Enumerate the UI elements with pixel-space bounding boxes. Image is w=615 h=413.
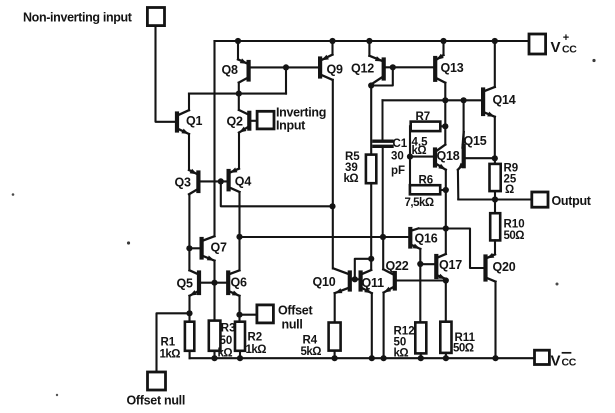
resistor R1 <box>160 322 195 361</box>
svg-text:Q10: Q10 <box>313 275 336 289</box>
wire Q15 collector up <box>463 100 465 146</box>
wire R7 right lead <box>440 125 445 127</box>
terminal offset null (Q5 side) <box>127 372 186 408</box>
wire Q18 base <box>410 156 433 158</box>
node Q20 collector rail <box>492 355 498 361</box>
wire Q8 base-collector tie <box>285 67 287 93</box>
wire Q11 collector to R5 <box>370 183 372 270</box>
transistor Q2 <box>227 110 250 133</box>
node Q18 base junction <box>407 154 413 160</box>
svg-text:kΩ: kΩ <box>412 145 427 157</box>
svg-text:Q8: Q8 <box>222 63 239 77</box>
node Q12 base tie <box>390 64 396 70</box>
wire Q6 emitter to R2 <box>238 296 240 322</box>
transistor Q22 <box>383 259 408 293</box>
wire Q5-Q6 base line <box>201 282 227 284</box>
transistor Q13 <box>435 54 464 83</box>
wire Q1 emitter to Q3 emitter <box>188 134 190 170</box>
terminal Vcc- <box>535 350 577 369</box>
node Q11 emitter rail <box>369 355 375 361</box>
resistor R10 <box>490 213 524 242</box>
wire Q13 emitter to rail <box>442 41 444 55</box>
wire Q18 emitter down <box>445 170 447 229</box>
svg-text:1kΩ: 1kΩ <box>160 349 181 361</box>
svg-text:5kΩ: 5kΩ <box>301 346 322 358</box>
wire Q5 emitter node to offset null terminal <box>157 313 190 372</box>
wire Q15 emitter to output <box>458 170 532 200</box>
wire Q7 emitter to R3 <box>213 261 215 321</box>
transistor Q14 <box>483 87 516 117</box>
node Q12 emitter rail <box>366 38 372 44</box>
svg-text:Non-inverting input: Non-inverting input <box>23 11 133 25</box>
speck <box>12 193 15 196</box>
svg-text:Q7: Q7 <box>211 241 228 255</box>
svg-text:Q11: Q11 <box>362 276 385 290</box>
svg-text:Offset null: Offset null <box>127 394 186 408</box>
wire Q3/Q4 bases to Q9/Q10 collectors <box>221 181 333 206</box>
wire Q20 collector to rail <box>494 282 496 359</box>
wire second stage input line to Q16 base <box>240 236 409 238</box>
transistor Q10 <box>313 269 350 294</box>
svg-text:Q16: Q16 <box>415 231 438 245</box>
node Q16/Q17 collector junction <box>443 225 449 231</box>
svg-text:Q1: Q1 <box>186 114 203 128</box>
node Q9 collector junction <box>329 203 335 209</box>
svg-text:kΩ: kΩ <box>218 348 233 360</box>
svg-text:V: V <box>551 353 561 370</box>
svg-text:1kΩ: 1kΩ <box>246 344 267 356</box>
wire Q15 base to R9 top <box>466 157 495 159</box>
transistor Q8 <box>222 58 249 82</box>
svg-text:50: 50 <box>220 335 233 347</box>
svg-text:30: 30 <box>391 151 404 163</box>
wire Q5 emitter to R1 <box>188 296 190 322</box>
wire Q9 emitter to rail <box>331 41 333 55</box>
resistor R11 <box>440 322 475 355</box>
transistor Q7 <box>202 236 227 260</box>
wire R1 to rail <box>189 351 191 358</box>
svg-text:R2: R2 <box>248 332 263 344</box>
wire Q12 base-collector tie <box>371 67 393 85</box>
wire Q17 emitter to R11 <box>445 279 447 322</box>
svg-text:Q20: Q20 <box>493 260 516 274</box>
node C1 / Q22 collector junction <box>380 234 386 240</box>
wire Q2 base to inverting input <box>251 120 257 122</box>
resistor R9 <box>490 163 519 197</box>
svg-text:Q18: Q18 <box>437 149 460 163</box>
resistor R12 <box>394 322 427 359</box>
wire Q8-Q9 base line <box>250 66 318 68</box>
wire Q4 collector to Q6 collector <box>238 192 240 270</box>
wire R6 right lead <box>440 189 446 191</box>
wire Q3-Q4 base line <box>200 180 227 182</box>
node Q13 emitter rail <box>440 38 446 44</box>
wire output line <box>458 198 532 200</box>
wire Q3 collector to Q5 collector <box>188 194 190 270</box>
wire Q17 collector up <box>445 229 447 255</box>
wire R7/R6 left link <box>409 126 411 185</box>
wire Q7 collector to V+ rail bus <box>213 41 215 236</box>
node Q5 emitter / offset junction <box>186 310 192 316</box>
resistor R7 <box>411 111 441 157</box>
wire Q2 emitter to Q4 emitter <box>238 133 240 169</box>
speck <box>127 241 130 244</box>
svg-text:Ω: Ω <box>505 184 514 196</box>
wire Q1/Q2 collectors to Q8 collector <box>189 93 286 95</box>
wire Q11 base-collector tie <box>355 259 371 280</box>
wire Q6 emitter node to offset null terminal <box>240 314 257 316</box>
transistor Q15 <box>458 132 487 170</box>
terminal offset null (Q6 side) <box>257 304 314 332</box>
node Q14 collector rail <box>492 38 498 44</box>
wire Q7 base <box>189 247 199 249</box>
speck <box>56 394 58 396</box>
node R7 junction <box>442 123 448 129</box>
svg-text:Q15: Q15 <box>464 134 487 148</box>
node Q17 base junction <box>417 261 423 267</box>
node Q6 emitter / offset junction <box>236 312 242 318</box>
resistor R5 <box>344 151 377 185</box>
resistor R4 <box>301 323 341 358</box>
svg-text:50Ω: 50Ω <box>504 230 525 242</box>
svg-text:Q6: Q6 <box>231 276 248 290</box>
transistor Q16 <box>410 228 437 249</box>
transistor Q17 <box>436 254 462 279</box>
node R11 rail <box>443 355 449 361</box>
transistor Q4 <box>229 168 252 193</box>
transistor Q3 <box>175 169 199 195</box>
node Q14 emitter / R9 junction <box>492 155 498 161</box>
node Q17 emitter / Q22 base junction <box>443 277 449 283</box>
svg-text:V: V <box>551 39 561 56</box>
wire Q12 emitter to rail <box>368 41 370 56</box>
svg-text:Q22: Q22 <box>386 259 409 273</box>
svg-text:CC: CC <box>562 357 577 369</box>
wire non-inverting input to Q1 base <box>156 26 176 122</box>
wire R2 to rail <box>239 351 241 358</box>
transistor Q18 <box>435 145 460 170</box>
wire Q13 collector to Q18 collector <box>444 83 446 145</box>
node R4 rail <box>332 355 338 361</box>
svg-text:kΩ: kΩ <box>344 173 359 185</box>
wire Q16 emitter to R12 <box>419 264 421 322</box>
node Q13 collector / Q14 base junction <box>442 97 448 103</box>
wire Q11 emitter to rail <box>371 293 373 358</box>
node output junction <box>492 196 498 202</box>
transistor Q9 <box>320 55 343 80</box>
svg-text:50Ω: 50Ω <box>453 343 474 355</box>
wire Q9 collector to Q10 collector <box>332 80 334 269</box>
wire top bias node line <box>383 99 482 101</box>
wire Q14 collector to rail <box>494 41 496 87</box>
resistor R2 <box>235 322 266 356</box>
node Q8 base tie <box>283 64 289 70</box>
wire R3 to rail <box>213 351 215 358</box>
svg-text:R4: R4 <box>303 335 318 347</box>
svg-text:R7: R7 <box>416 111 431 123</box>
wire V+ top rail <box>215 40 530 42</box>
resistor R6 <box>405 175 441 209</box>
resistor R3 <box>209 321 236 360</box>
svg-text:Q2: Q2 <box>227 115 244 129</box>
wire Q22 base to Q17 emitter <box>397 279 446 281</box>
speck <box>592 59 595 62</box>
svg-text:Input: Input <box>276 119 306 133</box>
node Q12 collector junction <box>368 82 374 88</box>
wire R4 to rail <box>334 351 336 359</box>
wire Q16 emitter to Q17 base <box>419 249 421 264</box>
node Q22 emitter rail <box>381 355 387 361</box>
svg-text:R1: R1 <box>161 337 176 349</box>
wire Q1 collector up <box>188 94 190 111</box>
svg-text:R10: R10 <box>504 219 525 231</box>
node Q4/Q6 collectors to Q16 base junction <box>236 234 242 240</box>
svg-text:Q17: Q17 <box>439 258 462 272</box>
capacitor C1 <box>374 100 408 237</box>
svg-text:C1: C1 <box>393 138 408 150</box>
wire R5 to Q12 collector <box>370 86 372 155</box>
wire Q22 emitter to rail <box>383 293 385 359</box>
wire Q8 collector down <box>238 83 240 94</box>
svg-text:R3: R3 <box>221 323 236 335</box>
transistor Q1 <box>177 110 203 134</box>
svg-text:Q14: Q14 <box>493 93 516 107</box>
wire Q17 base <box>420 263 434 265</box>
node Q9 emitter rail <box>329 38 335 44</box>
speck <box>556 283 559 286</box>
node Q3/Q4 base junction <box>218 178 224 184</box>
svg-text:pF: pF <box>391 165 405 177</box>
transistor Q12 <box>351 56 384 84</box>
svg-text:R6: R6 <box>419 175 434 187</box>
node Q8 emitter rail <box>235 38 241 44</box>
transistor Q20 <box>486 253 516 282</box>
terminal non-inverting input <box>23 8 165 26</box>
wire Q14 emitter to R9 <box>494 117 496 159</box>
terminal output <box>532 192 592 208</box>
node Q10/Q11 base junction <box>352 276 358 282</box>
svg-text:Q9: Q9 <box>327 63 344 77</box>
svg-text:Offset: Offset <box>278 304 313 318</box>
node R2 rail <box>237 355 243 361</box>
transistor Q6 <box>228 270 247 296</box>
svg-text:Q4: Q4 <box>235 175 252 189</box>
svg-text:null: null <box>282 318 303 332</box>
transistor Q11 <box>361 270 384 293</box>
node Q5/Q6 base junction <box>211 280 217 286</box>
wire Q10 emitter to R4 <box>334 293 336 322</box>
transistor Q5 <box>177 270 200 296</box>
svg-text:Q13: Q13 <box>441 61 464 75</box>
wire R10 leads <box>494 200 496 214</box>
node Q11 collector tie <box>368 256 374 262</box>
wire Q2 collector up <box>238 94 240 110</box>
svg-text:Inverting: Inverting <box>276 106 326 120</box>
svg-text:Q5: Q5 <box>177 277 194 291</box>
wire Q20 base link to Q17 collector <box>446 229 484 269</box>
wire R9 leads <box>494 158 496 164</box>
wire Q16 collector to node <box>418 227 445 229</box>
svg-text:Q3: Q3 <box>175 176 192 190</box>
svg-text:7,5kΩ: 7,5kΩ <box>405 197 434 209</box>
node R6 junction <box>443 187 449 193</box>
terminal Vcc+ <box>529 32 577 56</box>
node Q8 collector junction <box>236 91 242 97</box>
svg-text:kΩ: kΩ <box>394 348 409 360</box>
wire R12 to rail <box>420 353 422 358</box>
wire Q12-Q13 base line <box>386 66 434 68</box>
wire Q10-Q11 base segment <box>352 278 359 280</box>
node R3 rail <box>211 355 217 361</box>
node R12 rail <box>418 355 424 361</box>
svg-text:CC: CC <box>562 44 577 56</box>
wire Q8 emitter to rail <box>237 41 239 59</box>
svg-text:Output: Output <box>552 194 592 208</box>
svg-text:Q12: Q12 <box>351 62 374 76</box>
svg-text:+: + <box>563 32 569 44</box>
node Q7 base junction <box>186 245 192 251</box>
wire V- bottom rail <box>190 357 535 359</box>
terminal inverting input <box>257 106 326 133</box>
wire Q22 collector up <box>382 237 384 269</box>
node Q15 collector junction <box>461 97 467 103</box>
wire R11 to rail <box>445 353 447 358</box>
